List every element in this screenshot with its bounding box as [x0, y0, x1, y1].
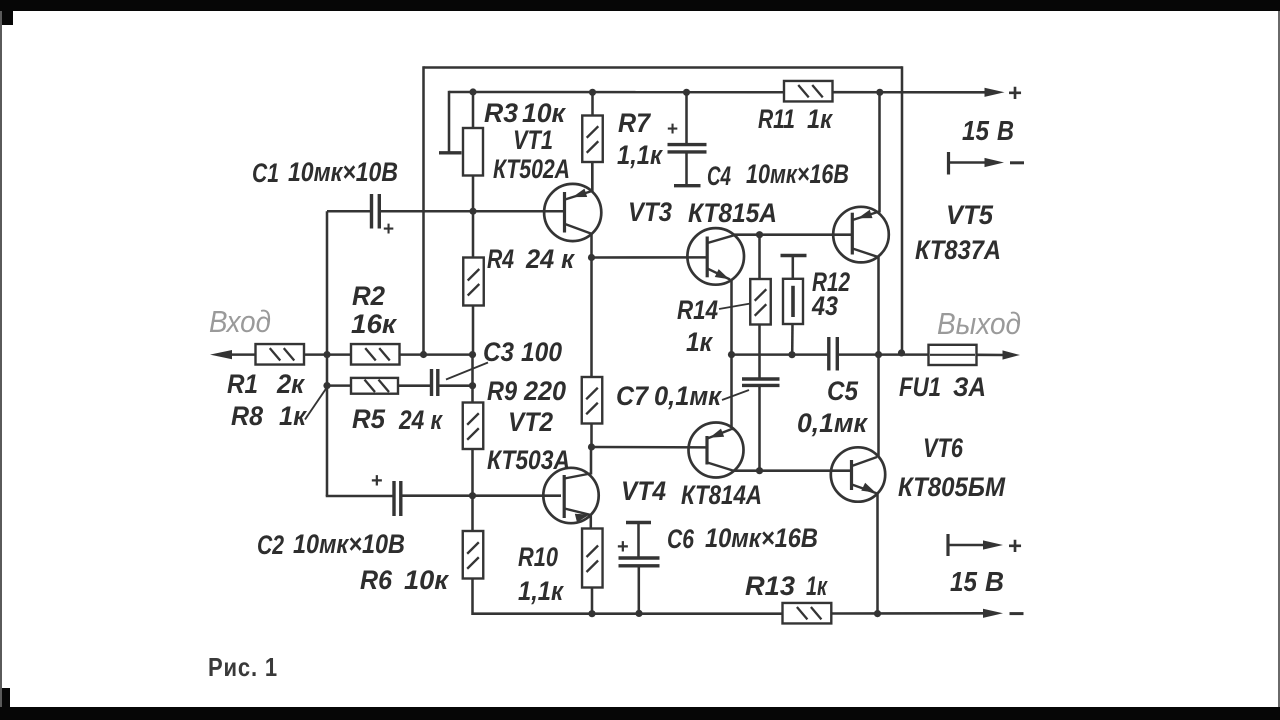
VT4 collector slant — [707, 463, 734, 471]
pointer C7 label — [722, 390, 749, 400]
VT3 emitter slant + arrow — [708, 269, 731, 280]
svg-text:24 к: 24 к — [525, 244, 575, 274]
svg-text:10мк×10В: 10мк×10В — [293, 529, 405, 559]
VT6 emitter slant + arrow — [852, 485, 877, 494]
svg-text:C4: C4 — [707, 161, 731, 191]
node C4 top — [683, 89, 690, 96]
wire collector column upper — [590, 258, 593, 378]
arrow -15V top — [985, 158, 1005, 167]
VT1 base bar — [563, 192, 566, 233]
wire R10 bottom lead — [591, 588, 594, 614]
fuse FU1 3A — [929, 345, 977, 365]
svg-text:КТ805БМ: КТ805БМ — [898, 472, 1005, 502]
svg-text:Вход: Вход — [209, 304, 271, 339]
svg-text:R8: R8 — [231, 401, 263, 431]
node feedback-output junction — [898, 349, 905, 356]
svg-text:VT5: VT5 — [946, 200, 994, 230]
svg-text:+: + — [617, 536, 629, 558]
VT6 collector slant — [852, 457, 877, 466]
capacitor C7 plates — [742, 379, 780, 385]
wire R6 bottom lead + corner — [473, 579, 593, 614]
resistor R13 1к — [783, 603, 832, 624]
resistor R3 10к — [463, 128, 483, 176]
wire R5 to C3 — [398, 384, 431, 387]
wire -15V top lead — [949, 161, 986, 164]
wire C2 left lead with corner — [327, 495, 394, 496]
svg-text:15: 15 — [962, 115, 989, 146]
wire R9 bottom lead — [471, 449, 474, 496]
svg-text:R1: R1 — [227, 369, 258, 399]
svg-text:R4: R4 — [487, 244, 514, 274]
resistor R11 1к — [784, 81, 833, 102]
wire collector column lower — [590, 424, 593, 448]
node R3 top — [469, 88, 476, 95]
svg-text:Выход: Выход — [937, 306, 1021, 341]
node VT2 base junction — [469, 492, 476, 499]
VT3 emitter lead down — [730, 279, 733, 355]
capacitor C3 plates — [432, 369, 438, 396]
node VT1 base / R3R4 junction — [469, 208, 476, 215]
arrow +15V bottom — [983, 540, 1003, 549]
arrow +15V top — [985, 88, 1005, 97]
transistor VT1 KT502A circle — [544, 184, 601, 241]
svg-text:43: 43 — [811, 291, 838, 321]
wire output line left — [732, 353, 829, 356]
scan edge line right — [1278, 11, 1280, 707]
arrow input (left) — [210, 350, 232, 359]
svg-text:16к: 16к — [351, 309, 397, 339]
svg-text:С6: С6 — [667, 524, 695, 554]
VT1 collector lead down — [590, 233, 593, 258]
VT2 base bar — [563, 475, 566, 518]
scan border nub top-left — [0, 0, 13, 25]
wire bottom rail mid — [592, 612, 783, 615]
VT2 emitter lead down — [590, 514, 593, 529]
svg-text:C2: C2 — [257, 530, 284, 560]
wire +15V rail left segment — [449, 91, 784, 94]
VT4 emitter lead up — [730, 355, 733, 431]
svg-text:1к: 1к — [806, 571, 828, 601]
VT4 emitter slant + arrow — [707, 430, 730, 439]
resistor R2 16к — [351, 344, 400, 365]
wire R5 left lead — [327, 384, 351, 387]
svg-text:+: + — [667, 119, 678, 140]
node R4 bottom junction — [469, 351, 476, 358]
resistor R9b (bias, between driver bases) — [582, 377, 603, 424]
resistor R9 220 — [463, 403, 484, 450]
VT6 base bar — [850, 460, 853, 490]
VT3 collector slant — [708, 235, 737, 243]
resistor R14 1к — [750, 279, 771, 325]
svg-text:R2: R2 — [352, 281, 385, 311]
node R12 bottom — [788, 351, 795, 358]
svg-text:С7: С7 — [616, 381, 650, 411]
node VT5/VT6 collector junction — [875, 351, 882, 358]
svg-text:КТ815А: КТ815А — [688, 198, 777, 228]
svg-text:R14: R14 — [677, 295, 718, 325]
wire +15V bottom lead — [948, 544, 984, 547]
wire R4 top lead — [472, 211, 475, 258]
svg-text:1,1к: 1,1к — [518, 576, 564, 606]
wire R3 top lead — [472, 92, 475, 129]
wire R2 to R4 node — [400, 353, 474, 356]
node input junction — [323, 351, 330, 358]
terminal tick top-right — [947, 152, 950, 175]
svg-text:10мк×16В: 10мк×16В — [746, 159, 849, 189]
terminal tick bottom-right — [946, 534, 949, 556]
terminal T-bar C6 — [626, 521, 651, 524]
capacitor C1 plates — [372, 194, 380, 229]
VT1 emitter lead up — [591, 162, 594, 192]
svg-text:VT2: VT2 — [508, 407, 553, 437]
svg-text:VT6: VT6 — [923, 433, 964, 463]
label − top right — [1010, 161, 1024, 164]
wire feedback left vertical — [422, 66, 425, 354]
wire C7 bottom lead — [758, 387, 761, 471]
node VT4 base junction — [588, 443, 595, 450]
svg-text:2к: 2к — [276, 369, 305, 399]
svg-text:C5: C5 — [827, 376, 859, 406]
label − bottom right — [1010, 612, 1024, 615]
wire +15V rail right segment — [833, 91, 986, 94]
svg-text:15: 15 — [950, 566, 977, 597]
svg-text:0,1мк: 0,1мк — [797, 408, 868, 438]
svg-text:FU1: FU1 — [899, 372, 941, 402]
resistor R4 24к — [463, 258, 484, 306]
wire rail end stub down — [448, 91, 451, 153]
wire R14 bottom lead (crosses output line) — [758, 325, 761, 379]
wire VT3 base — [592, 256, 707, 259]
svg-text:VT1: VT1 — [513, 125, 553, 155]
wire VT4 collector to VT6 base — [733, 469, 852, 472]
svg-text:VT4: VT4 — [621, 476, 666, 506]
node C6 bottom — [635, 610, 642, 617]
arrow output (right) — [1003, 350, 1021, 359]
wire VT4 base — [592, 446, 707, 449]
svg-text:0,1мк: 0,1мк — [654, 381, 722, 411]
VT5 base bar — [851, 213, 854, 255]
svg-text:R3: R3 — [484, 98, 518, 128]
svg-text:1,1к: 1,1к — [617, 140, 663, 170]
svg-text:R13: R13 — [745, 571, 795, 601]
VT4 base bar — [705, 436, 708, 465]
node R5 left junction — [323, 382, 330, 389]
resistor R5 24к — [351, 378, 398, 394]
VT3 base bar — [706, 237, 709, 278]
capacitor C6 plates — [619, 558, 660, 566]
svg-text:+: + — [371, 470, 383, 492]
terminal T-bar R12 — [781, 254, 807, 257]
wire R14 top lead — [758, 235, 761, 280]
transistor VT3 KT815A circle — [687, 228, 744, 285]
svg-text:1к: 1к — [686, 327, 713, 357]
svg-text:+: + — [1008, 80, 1022, 107]
svg-text:C1: C1 — [252, 158, 279, 188]
svg-text:+: + — [1008, 533, 1022, 560]
svg-text:R11: R11 — [758, 104, 795, 134]
wire feedback top rail — [424, 66, 903, 69]
VT2 emitter slant + arrow — [564, 509, 590, 515]
scan border bar top — [0, 0, 1280, 11]
terminal T-bar C4 — [674, 184, 701, 187]
scan border bar bottom — [0, 707, 1280, 720]
svg-text:1к: 1к — [807, 104, 833, 134]
svg-text:10к: 10к — [404, 565, 449, 595]
arrow -15V bottom — [983, 609, 1003, 618]
pointer R8 to node — [305, 387, 328, 420]
wire R7 bottom lead — [591, 162, 594, 192]
svg-text:+: + — [383, 219, 394, 240]
pointer R14 label — [719, 304, 751, 310]
VT6 emitter lead down — [876, 493, 879, 614]
wire feedback right vertical — [901, 66, 904, 353]
svg-text:R5: R5 — [352, 404, 386, 434]
node VT6 emitter bottom — [874, 610, 881, 617]
wire VT3 collector to VT5 base — [734, 233, 852, 236]
wire C4 top lead — [685, 92, 688, 143]
wire C1 right lead to VT1 base — [380, 210, 565, 213]
svg-text:10мк×16В: 10мк×16В — [705, 523, 818, 553]
node R7 top — [589, 89, 596, 96]
wire C4 bottom lead — [685, 154, 688, 186]
svg-text:Рис. 1: Рис. 1 — [208, 652, 278, 682]
scan edge line left — [0, 11, 2, 707]
transistor VT4 KT814A circle — [689, 423, 744, 478]
svg-text:R6: R6 — [360, 565, 393, 595]
VT5 collector slant — [853, 249, 878, 257]
resistor R7 1,1к — [582, 116, 603, 163]
wire to VT2 collector — [590, 447, 593, 475]
wire C3 to R9 node — [438, 384, 473, 387]
node VT3 base junction — [588, 254, 595, 261]
wire C6 top lead — [637, 523, 640, 558]
wire output line right — [977, 354, 1005, 357]
wire C2 to VT2 base — [401, 494, 561, 497]
wire output line mid — [838, 353, 929, 356]
wire R12 bottom lead — [791, 324, 794, 355]
node R14 top — [756, 231, 763, 238]
svg-text:220: 220 — [523, 376, 566, 406]
svg-text:24 к: 24 к — [398, 405, 443, 435]
node VT3/VT4 emitter junction — [728, 351, 735, 358]
wire C1 left lead with corner — [327, 210, 371, 213]
node R10 bottom — [588, 610, 595, 617]
wire R1 to input node — [304, 353, 351, 356]
capacitor C4 plates — [668, 145, 707, 152]
wire R3 bottom lead — [472, 176, 475, 213]
svg-text:КТ503А: КТ503А — [487, 445, 570, 475]
node VT5 emitter rail — [876, 89, 883, 96]
resistor R10 1,1к — [582, 529, 603, 588]
node C7 bottom junction — [756, 467, 763, 474]
VT5 emitter lead up — [878, 92, 881, 212]
resistor R6 10к — [463, 531, 484, 579]
wire R6 top lead — [471, 496, 474, 532]
svg-text:R7: R7 — [618, 108, 652, 138]
svg-text:R9: R9 — [487, 376, 517, 406]
scan border nub bottom-left — [0, 688, 10, 720]
wire C6 bottom lead — [638, 567, 641, 613]
wire bottom rail right — [831, 612, 983, 615]
VT5 emitter slant + arrow — [853, 212, 880, 221]
wire left column vertical — [326, 211, 329, 496]
svg-text:10мк×10В: 10мк×10В — [288, 157, 398, 187]
wire VT5/VT6 collector column — [877, 256, 880, 458]
svg-text:1к: 1к — [279, 401, 307, 431]
svg-text:В: В — [997, 115, 1014, 146]
terminal T-bar near R3 — [439, 151, 462, 154]
VT1 emitter slant + arrow — [565, 191, 592, 200]
svg-text:VT3: VT3 — [628, 197, 672, 227]
svg-text:В: В — [985, 566, 1004, 597]
wire R9 top lead — [471, 355, 474, 403]
transistor VT6 KT805BM circle — [831, 447, 885, 501]
VT2 collector slant — [564, 474, 590, 479]
wire R7 top lead — [591, 92, 594, 116]
node feedback-input junction — [420, 351, 427, 358]
wire R12 top lead — [792, 256, 795, 280]
svg-text:ЗА: ЗА — [953, 372, 986, 402]
resistor R1 2к — [256, 344, 305, 365]
VT1 collector slant — [565, 224, 592, 234]
svg-text:10к: 10к — [522, 98, 566, 128]
svg-text:100: 100 — [521, 337, 562, 367]
node C3/R9 junction — [469, 382, 476, 389]
resistor R12 43 — [783, 279, 803, 324]
transistor VT5 KT837A circle — [833, 207, 889, 263]
svg-text:R10: R10 — [518, 542, 558, 572]
svg-text:КТ502А: КТ502А — [493, 154, 570, 184]
transistor VT2 KT503A circle — [543, 468, 598, 523]
wire R4 bottom lead — [472, 306, 475, 356]
svg-text:КТ837А: КТ837А — [915, 235, 1001, 265]
capacitor C5 plates — [829, 337, 838, 371]
pointer C3 label — [446, 363, 488, 380]
capacitor C2 plates — [394, 481, 401, 516]
svg-text:КТ814А: КТ814А — [681, 480, 762, 510]
